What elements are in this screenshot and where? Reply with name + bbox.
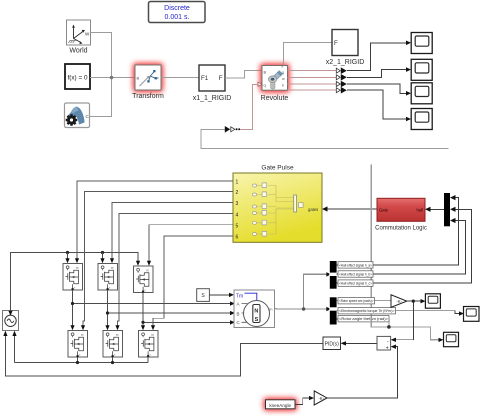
wire rotor angle vertical overlay: [370, 316, 372, 327]
converter PS-Simulink 2: [336, 74, 347, 81]
svg-text:B: B: [237, 311, 240, 316]
svg-text:6: 6: [236, 235, 239, 241]
highlight glow Revolute: [261, 64, 290, 92]
wire x1_1_RIGID to Revolute B: [225, 71, 262, 79]
wire q feedback horizontal: [201, 129, 448, 148]
wire dc top rail: [11, 253, 139, 311]
svg-text:m: m: [116, 333, 119, 337]
wire bottom rail: [15, 335, 149, 363]
svg-text:<Rotor speed wm (rad/s)>: <Rotor speed wm (rad/s)>: [339, 299, 374, 303]
svg-text:q: q: [264, 83, 266, 88]
wire converter3 to scope3: [347, 84, 406, 93]
block World: [67, 20, 91, 55]
bus selector 1: [329, 261, 337, 289]
wire phase B: [108, 290, 231, 326]
wire commutation to gate pulse: [328, 208, 378, 210]
junction rotor angle drop: [388, 319, 390, 327]
svg-text:kneeAngle: kneeAngle: [269, 403, 291, 408]
wire converter2 to scope2: [347, 70, 406, 78]
arrow drop to M3: [136, 261, 140, 266]
svg-text:+: +: [386, 345, 389, 351]
wire hall a to bus: [373, 198, 459, 265]
scope C: [444, 332, 459, 346]
wire gate pulse p4 to B2 gate: [118, 214, 234, 326]
arrow into hall: [425, 207, 431, 212]
wire rotor angle label: [337, 318, 339, 320]
wire gate pulse p6 to B3 gate: [153, 236, 233, 326]
svg-text:F: F: [334, 40, 338, 47]
wire Revolute F to x2_1_RIGID: [284, 43, 333, 66]
block Commutation Logic: [375, 198, 427, 231]
svg-text:<Hall effect signal h_a>: <Hall effect signal h_a>: [339, 263, 373, 267]
sum block: [377, 336, 391, 351]
block Gate Pulse subsystem: [233, 173, 322, 242]
svg-text:<Hall effect signal h_c>: <Hall effect signal h_c>: [339, 282, 373, 286]
block PID: [323, 337, 341, 350]
mosfet M2: [98, 264, 118, 291]
svg-text:f(x) = 0: f(x) = 0: [67, 74, 88, 81]
svg-text:5: 5: [236, 223, 239, 229]
svg-text:m: m: [146, 268, 149, 272]
svg-text:B: B: [264, 70, 267, 75]
wire rotor angle to scope C: [371, 165, 438, 340]
svg-text:Discrete: Discrete: [164, 5, 190, 12]
label rotor angle: [338, 316, 389, 322]
block x1_1_RIGID: [193, 65, 232, 102]
wire converter4 to scope4: [347, 90, 406, 119]
block Revolute: [261, 65, 289, 102]
svg-text:1: 1: [236, 180, 239, 186]
wire world to trunk: [91, 33, 112, 78]
mosfet B2: [103, 331, 123, 358]
svg-text:m: m: [76, 266, 79, 270]
mosfet B3: [139, 331, 159, 358]
wire phase A: [73, 290, 231, 326]
svg-text:x1_1_RIGID: x1_1_RIGID: [193, 95, 232, 102]
wire hall b to bus: [373, 221, 466, 274]
label rotor speed: [338, 298, 375, 304]
wire S to motor Tm: [209, 294, 229, 296]
svg-text:PID(s): PID(s): [325, 342, 340, 348]
gain knee: [314, 391, 327, 405]
block Transform: [132, 65, 164, 100]
block BLDC motor: [234, 290, 275, 328]
svg-text:S: S: [255, 317, 259, 323]
block Mechanism Configuration: [65, 103, 90, 128]
scope 2: [411, 59, 432, 80]
highlight glow kneeAngle: [264, 398, 297, 410]
svg-text:-K-: -K-: [397, 299, 403, 304]
wire rotor speed label to gain: [337, 300, 391, 302]
svg-text:w: w: [282, 77, 285, 81]
svg-text:A: A: [237, 302, 240, 307]
wire hall c to bus: [373, 209, 471, 283]
wire phase C: [143, 293, 230, 326]
svg-text:m: m: [151, 333, 154, 337]
arrow into gates: [322, 206, 328, 211]
svg-text:hall: hall: [416, 208, 423, 213]
wire motor m to bus selectors: [275, 274, 327, 309]
svg-text:<Electromagnetic torque Te (N*: <Electromagnetic torque Te (N*m)>: [339, 309, 395, 313]
wire ps revolute out q: [288, 70, 337, 72]
wire ps revolute out t: [288, 89, 337, 91]
highlight glow Transform: [134, 64, 163, 92]
wire ps revolute out w: [288, 76, 337, 78]
wire converter1 to scope1: [347, 43, 406, 71]
wire gate pulse p2 to B1 gate: [83, 192, 233, 326]
scope 4: [411, 109, 432, 130]
wire hall a label: [337, 264, 339, 266]
svg-text:x2_1_RIGID: x2_1_RIGID: [326, 59, 365, 66]
wire gate pulse p1 to M1 gate: [77, 181, 233, 259]
svg-text:<Rotor angle thetam (rad)>: <Rotor angle thetam (rad)>: [339, 317, 389, 321]
svg-text:B: B: [137, 76, 140, 81]
svg-text:m: m: [111, 266, 114, 270]
wire Transform to x1_1_RIGID: [161, 77, 199, 79]
svg-text:Gate Pulse: Gate Pulse: [261, 165, 294, 172]
junction dots top rail: [66, 251, 69, 254]
converter PS-Simulink 1: [336, 67, 347, 74]
svg-text:3: 3: [236, 201, 239, 207]
svg-text:F: F: [219, 75, 223, 82]
junction: [110, 76, 114, 80]
wire torque label to scope B: [337, 311, 459, 314]
bus selector 2: [329, 297, 337, 324]
mosfet M1: [63, 264, 83, 291]
scope A: [425, 294, 440, 308]
svg-text:Gate: Gate: [379, 208, 389, 213]
svg-text:F1: F1: [201, 75, 209, 82]
svg-text:2: 2: [236, 190, 239, 196]
converter PS-Simulink 3: [336, 81, 347, 88]
wire knee gain to sum plus: [327, 347, 398, 398]
converter PS-Simulink 4: [336, 87, 347, 94]
block x2_1_RIGID: [326, 30, 365, 67]
scope B: [464, 307, 480, 322]
block AC source: [3, 311, 19, 331]
wire bus to commutation: [431, 208, 445, 210]
svg-text:gates: gates: [308, 207, 318, 212]
wire pid to ac source: [5, 335, 323, 376]
svg-text:b: b: [282, 84, 284, 88]
wire gain to scope A and sum: [396, 301, 421, 340]
wire f(x)=0 to Transform: [90, 77, 135, 79]
mosfet M3: [134, 266, 154, 293]
svg-text:4: 4: [236, 212, 239, 218]
wire gate pulse p5 to M3 gate: [149, 225, 233, 261]
wire hall c label: [337, 282, 339, 284]
wire drop to M1: [67, 253, 69, 259]
svg-text:Commutation Logic: Commutation Logic: [375, 226, 427, 232]
wire mechanism config to trunk: [90, 78, 112, 117]
wire hall b label: [337, 273, 339, 275]
svg-text:0.001 s.: 0.001 s.: [165, 14, 190, 21]
svg-text:-K-: -K-: [319, 396, 325, 401]
annotation Discrete 0.001 s.: [149, 2, 206, 23]
svg-text:Revolute: Revolute: [261, 95, 289, 102]
wire ps to revolute q: [240, 84, 258, 129]
block kneeAngle: [266, 400, 296, 409]
scope 1: [411, 33, 432, 54]
svg-text:<Hall effect signal h_b>: <Hall effect signal h_b>: [339, 273, 373, 277]
svg-text:Transform: Transform: [132, 93, 164, 100]
svg-text:N: N: [254, 308, 258, 314]
wire ps revolute out b: [288, 83, 337, 85]
label hall effect b: [338, 271, 373, 277]
wire sum to PID: [346, 342, 377, 344]
label torque: [338, 308, 396, 314]
svg-text:World: World: [69, 48, 87, 55]
label hall effect c: [338, 280, 373, 286]
label hall effect a: [338, 262, 373, 268]
svg-text:Tm: Tm: [236, 294, 243, 300]
svg-text:m: m: [81, 333, 84, 337]
block f(x)=0 solver: [65, 64, 90, 89]
bus creator bar: [444, 193, 450, 226]
wire kneeAngle to knee gain: [295, 398, 309, 405]
mosfet B1: [68, 331, 88, 358]
gain speed: [391, 295, 407, 308]
block S constant: [197, 289, 210, 302]
wire gate pulse p3 to M2 gate: [112, 202, 233, 258]
scope 3: [411, 83, 432, 104]
converter Simulink-PS: [225, 126, 240, 133]
wire drop to M2: [102, 253, 104, 259]
